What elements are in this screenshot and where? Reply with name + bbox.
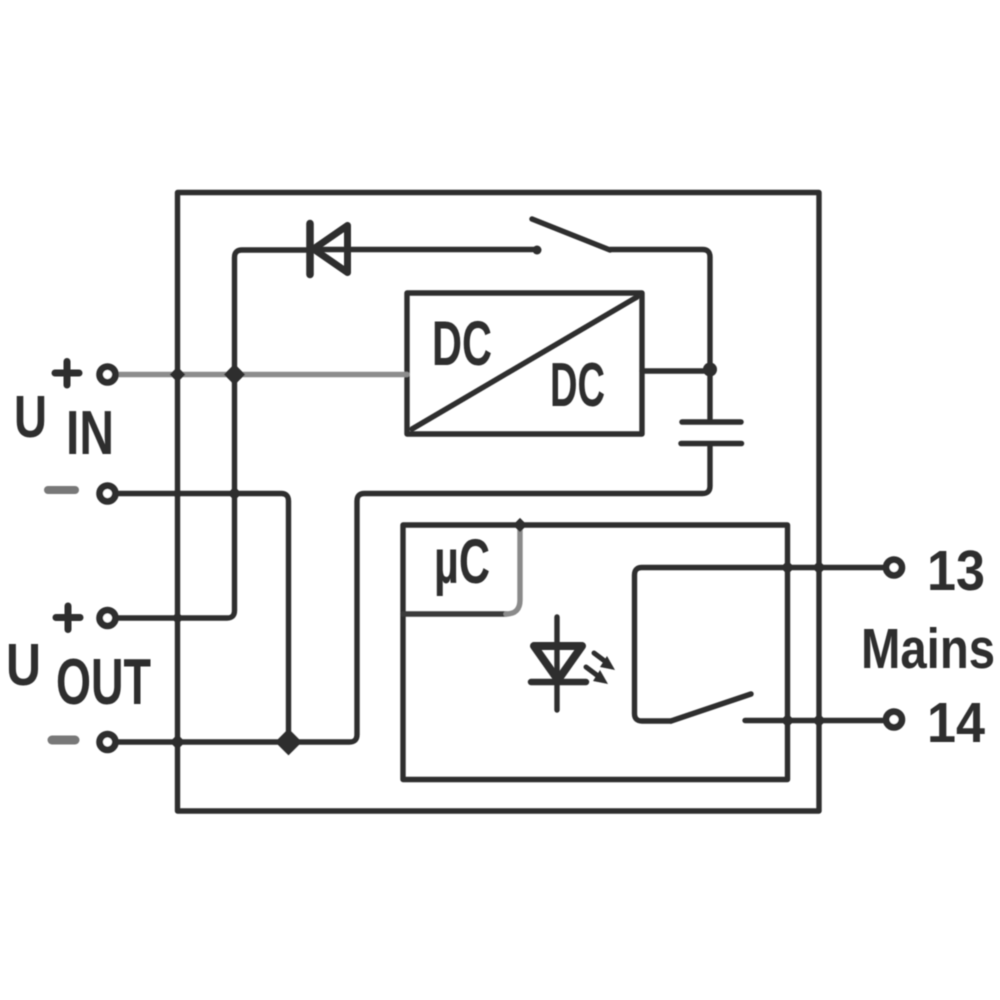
polarity sign + (U OUT): [56, 606, 80, 630]
wire +OUT up through node A to diode: [118, 250, 310, 618]
crossing dot outer box right edge / wire 13: [812, 560, 826, 574]
svg-text:U: U: [6, 632, 41, 698]
crossing dot outer box left edge / -IN wire: [172, 488, 183, 499]
crossing dot outer box right edge / wire 14: [812, 713, 826, 727]
DC/DC converter label DC (output side): [550, 351, 605, 420]
junction dot µC box right edge / inner box top: [513, 518, 527, 532]
polarity sign - (U OUT): [52, 736, 75, 745]
polarity sign + (U IN): [55, 362, 79, 386]
label 13: [927, 539, 985, 603]
wire -IN rail down to node C: [118, 494, 289, 743]
wire relay contact to terminal 13: [635, 568, 884, 722]
terminal 13: [886, 560, 902, 576]
wire node B down to capacitor C1: [707, 370, 712, 419]
terminal -IN: [100, 486, 116, 502]
wire DC/DC output to node B: [642, 368, 708, 373]
terminal 14: [886, 712, 902, 728]
svg-text:IN: IN: [66, 399, 114, 468]
LED V1 light arrow 1: [594, 653, 615, 670]
microcontroller U2 box: [403, 525, 520, 614]
svg-text:Mains: Mains: [861, 617, 995, 681]
svg-text:OUT: OUT: [56, 645, 151, 718]
svg-text:DC: DC: [432, 309, 492, 379]
switch S1 blade (open): [532, 219, 610, 250]
LED V1: [531, 617, 586, 710]
wire diode anode to switch contact: [310, 247, 536, 252]
crossing dot outer box left edge / +OUT wire: [171, 612, 184, 625]
label IN: [66, 399, 114, 468]
wire capacitor C1 to minus rail and -OUT terminal: [118, 447, 710, 743]
DC/DC converter U1 box: [407, 293, 642, 434]
label Mains: [861, 617, 995, 681]
wire relay contact to terminal 14: [745, 718, 884, 723]
label U (OUT): [6, 632, 41, 698]
LED V1 light arrow 2: [586, 667, 608, 684]
junction dot at +OUT wire crossing -IN: [227, 486, 241, 500]
crossing dot inner box right edge / wire 14: [780, 713, 794, 727]
inner relay/controller box: [403, 525, 788, 780]
microcontroller U2 label µC: [434, 527, 490, 597]
terminal -OUT: [100, 734, 116, 750]
wire +IN rail (gray) to DC/DC input: [118, 372, 407, 377]
DC/DC converter label DC (input side): [432, 309, 492, 379]
outer device box: [178, 193, 820, 812]
svg-text:µC: µC: [434, 527, 490, 597]
label 14: [927, 691, 985, 755]
junction node C (-IN / -OUT rail): [275, 729, 302, 756]
terminal +OUT: [100, 610, 116, 626]
svg-text:U: U: [14, 384, 47, 450]
label OUT: [56, 645, 151, 718]
polarity sign - (U IN): [48, 486, 75, 494]
wire switch to node B: [610, 250, 710, 368]
crossing dot inner box right edge / wire 13: [780, 560, 794, 574]
svg-text:13: 13: [927, 539, 985, 603]
relay contact K1 blade (open): [671, 694, 751, 721]
junction node A (+IN / +OUT / diode): [224, 364, 245, 385]
label U (IN): [14, 384, 47, 450]
svg-text:14: 14: [927, 691, 985, 755]
capacitor C1: [681, 422, 742, 444]
terminal +IN: [100, 367, 116, 383]
junction node B (DC/DC out / switch / C1): [703, 363, 717, 377]
crossing dot outer box left edge / -OUT wire: [170, 734, 186, 750]
crossing dot outer box left edge / +IN wire: [170, 367, 186, 383]
diode D1 (backfeed): [310, 224, 348, 275]
switch S1 fixed contact dot: [533, 246, 542, 255]
svg-text:DC: DC: [550, 351, 605, 420]
